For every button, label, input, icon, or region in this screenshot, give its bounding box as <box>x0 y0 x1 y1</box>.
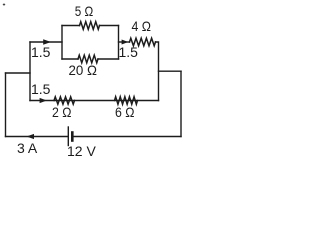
wire box exit <box>119 41 130 43</box>
svg-text:12 V: 12 V <box>67 143 96 159</box>
wire bottom left segment <box>6 136 68 138</box>
arrow current middle branch <box>40 98 47 103</box>
wire box bottom-right lead <box>98 58 119 60</box>
svg-text:2 Ω: 2 Ω <box>52 104 72 120</box>
svg-text:6 Ω: 6 Ω <box>115 104 135 120</box>
resistor R4 2ohm <box>54 97 75 104</box>
wire box right edge <box>118 26 120 60</box>
wire box top-right lead <box>100 25 119 27</box>
wire right branch connector <box>159 70 182 72</box>
wire right mid vertical <box>156 42 159 101</box>
arrow current out of box <box>122 40 129 45</box>
wire right outer edge <box>180 71 182 136</box>
resistor R5 6ohm <box>115 97 138 105</box>
wire box top-left lead <box>62 25 80 27</box>
svg-text:5 Ω: 5 Ω <box>75 3 94 19</box>
svg-text:1.5: 1.5 <box>31 44 51 60</box>
wire box left edge <box>61 26 63 60</box>
wire bottom right segment <box>73 136 181 138</box>
wire left connector <box>6 72 31 74</box>
wire middle branch <box>30 100 159 102</box>
battery B1 short plate <box>71 133 74 141</box>
arrow current into box <box>43 39 51 44</box>
battery B1 long plate <box>67 127 69 146</box>
resistor R3 4ohm <box>130 38 156 46</box>
wire left junction rail <box>29 42 31 101</box>
svg-text:3 A: 3 A <box>17 140 38 156</box>
svg-text:20 Ω: 20 Ω <box>69 62 98 78</box>
wire left outer edge <box>5 73 7 137</box>
arrow current bottom wire <box>27 134 35 139</box>
svg-text:4 Ω: 4 Ω <box>132 18 152 34</box>
resistor R1 5ohm <box>80 22 100 30</box>
svg-text:1.5: 1.5 <box>119 44 139 60</box>
wire box bottom-left lead <box>62 58 78 60</box>
svg-text:1.5: 1.5 <box>31 81 51 97</box>
artifact mark top-left <box>3 4 5 6</box>
resistor R2 20ohm <box>78 55 98 63</box>
wire entry to parallel box <box>30 41 62 43</box>
